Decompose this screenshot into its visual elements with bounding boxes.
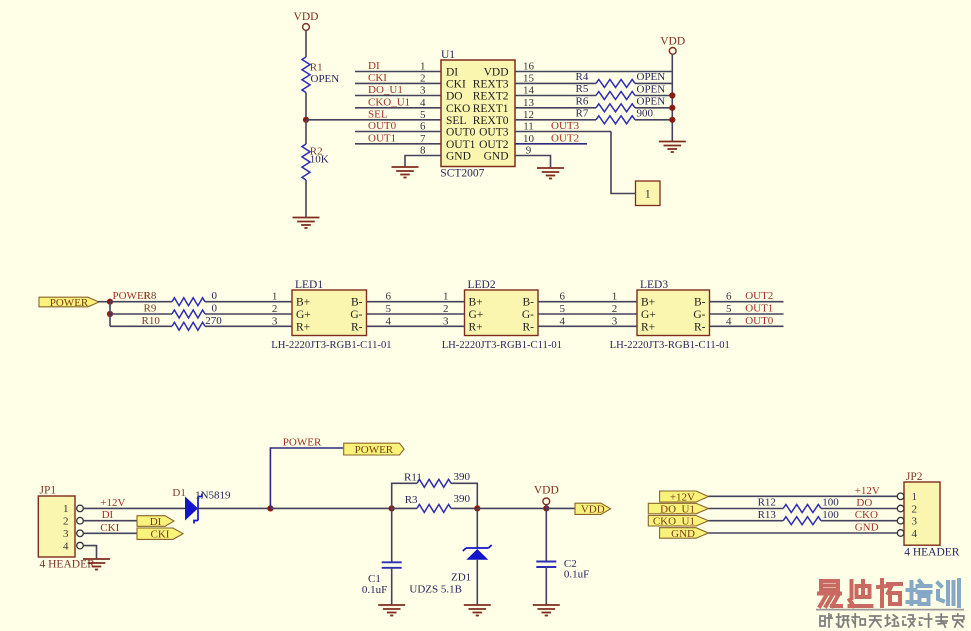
wire JP1 pin3 to CKI port <box>83 532 137 534</box>
svg-text:POWER: POWER <box>355 444 394 456</box>
svg-text:R12: R12 <box>758 497 776 509</box>
connector JP1 body <box>38 496 75 557</box>
svg-text:1: 1 <box>645 189 651 201</box>
svg-text:3: 3 <box>272 315 278 327</box>
svg-text:4 HEADER: 4 HEADER <box>904 547 960 559</box>
svg-text:CKI: CKI <box>368 72 387 84</box>
svg-text:CKI: CKI <box>151 529 170 541</box>
svg-text:DI: DI <box>446 67 458 79</box>
svg-text:B-: B- <box>351 297 363 309</box>
svg-text:+12V: +12V <box>855 485 880 497</box>
svg-text:0: 0 <box>212 290 218 302</box>
svg-text:3: 3 <box>912 516 918 528</box>
wire JP1 pin4 to ground <box>83 546 96 559</box>
svg-text:R7: R7 <box>576 107 589 119</box>
wire U1 pin11 OUT3 <box>515 131 611 133</box>
JP2 pin 4 circle <box>897 530 904 537</box>
wire net SEL to U1 pin 5 <box>306 119 441 121</box>
ground (JP1 pin 4) <box>83 559 110 570</box>
wire node to R3 <box>392 507 417 509</box>
ground (ZD1) <box>464 605 491 616</box>
svg-text:UDZS 5.1B: UDZS 5.1B <box>409 584 462 596</box>
wire R9 to LED1 pin 2 <box>205 313 292 315</box>
wire C1 to ground <box>391 568 393 605</box>
svg-text:2: 2 <box>420 72 426 84</box>
svg-text:D1: D1 <box>172 487 185 499</box>
svg-text:GND: GND <box>446 151 471 163</box>
resistor R9 <box>172 310 205 318</box>
svg-text:16: 16 <box>523 61 535 73</box>
svg-text:+12V: +12V <box>670 491 695 503</box>
svg-text:B-: B- <box>694 297 706 309</box>
svg-text:CKO_U1: CKO_U1 <box>653 516 695 528</box>
svg-text:G+: G+ <box>469 309 484 321</box>
svg-text:LH-2220JT3-RGB1-C11-01: LH-2220JT3-RGB1-C11-01 <box>442 340 562 351</box>
LED component LED2 body <box>465 290 539 336</box>
svg-text:CKI: CKI <box>100 522 119 534</box>
wire to POWER port <box>270 448 343 508</box>
wire POWER vertical bus <box>109 302 111 327</box>
svg-text:4: 4 <box>420 97 426 109</box>
wire LED1 pin 5 to LED2 pin 2 <box>367 313 465 315</box>
svg-text:VDD: VDD <box>484 67 509 79</box>
svg-text:1: 1 <box>912 491 918 503</box>
svg-text:390: 390 <box>454 493 471 505</box>
wire VDD symbol to node <box>545 505 547 509</box>
svg-text:G+: G+ <box>296 309 311 321</box>
ground (below R2) <box>293 218 320 229</box>
wire DO_U1 to R12 <box>708 508 783 510</box>
JP2 pin 3 circle <box>897 517 904 524</box>
svg-text:OPEN: OPEN <box>637 71 666 83</box>
wire node down to C2 <box>545 508 547 561</box>
svg-text:R+: R+ <box>469 321 483 333</box>
port DI <box>137 516 174 528</box>
port POWER (bottom) <box>344 443 404 456</box>
svg-text:POWER: POWER <box>50 297 89 309</box>
svg-text:CKI: CKI <box>446 79 466 91</box>
junction POWER row2 <box>107 311 113 317</box>
wire node to R9 <box>110 313 172 315</box>
svg-text:GND: GND <box>855 522 879 534</box>
wire ZD1 to ground <box>476 560 478 605</box>
svg-text:4: 4 <box>912 528 918 540</box>
resistor R2 <box>302 144 310 180</box>
resistor R13 <box>783 517 821 525</box>
wire LED1 pin 6 to LED2 pin 1 <box>367 301 465 303</box>
ground (C2) <box>533 605 560 616</box>
svg-text:LH-2220JT3-RGB1-C11-01: LH-2220JT3-RGB1-C11-01 <box>271 340 391 351</box>
wire R3 to ZD1 node <box>451 507 477 509</box>
svg-text:REXT3: REXT3 <box>473 79 509 91</box>
connector JP2 body <box>904 482 940 545</box>
wire R8 to LED1 pin 1 <box>205 301 292 303</box>
port POWER (LED rail) <box>39 297 99 309</box>
wire LED2 pin 4 to LED3 pin 3 <box>538 325 637 327</box>
ground (VDD rail) <box>659 142 686 153</box>
svg-text:LED1: LED1 <box>295 279 323 291</box>
svg-text:SEL: SEL <box>368 108 388 120</box>
junction ZD1 <box>474 505 480 511</box>
wire R13 to JP2 pin3 <box>821 520 897 522</box>
svg-text:OUT1: OUT1 <box>446 139 476 151</box>
svg-text:B+: B+ <box>469 297 483 309</box>
svg-text:R9: R9 <box>144 303 157 315</box>
svg-text:GND: GND <box>671 528 695 540</box>
port +12V <box>660 491 709 503</box>
svg-text:VDD: VDD <box>294 11 319 23</box>
resistor R11 <box>417 479 451 487</box>
svg-text:DO_U1: DO_U1 <box>368 84 403 96</box>
svg-text:7: 7 <box>420 133 426 145</box>
op-amp U1 body (SCT2007) <box>441 60 515 167</box>
svg-text:DI: DI <box>150 516 162 528</box>
svg-text:JP1: JP1 <box>40 485 57 497</box>
resistor R12 <box>783 505 821 513</box>
svg-text:OUT1: OUT1 <box>368 132 396 144</box>
sheet connector box 1 <box>636 181 661 206</box>
svg-text:R10: R10 <box>142 315 161 327</box>
wire POWER port to node <box>98 301 110 303</box>
svg-text:G+: G+ <box>641 309 656 321</box>
svg-text:OUT2: OUT2 <box>479 139 509 151</box>
svg-text:R11: R11 <box>404 472 422 484</box>
wire R12 to JP2 pin2 <box>821 508 897 510</box>
resistor R4 <box>596 79 635 87</box>
svg-text:VDD: VDD <box>581 504 605 516</box>
LED component LED3 body <box>637 290 710 336</box>
svg-text:OUT2: OUT2 <box>551 132 579 144</box>
svg-text:1: 1 <box>420 61 426 73</box>
wire JP1 pin2 to DI port <box>83 520 137 522</box>
wire net OUT1 to U1 pin 7 <box>355 143 441 145</box>
wire node to R2 <box>305 120 307 144</box>
wire U1 pin 14 to R5 <box>515 95 596 97</box>
svg-text:2: 2 <box>912 503 918 515</box>
junction R5 rail <box>669 92 675 98</box>
wire node down to ZD1 <box>476 508 478 547</box>
wire LED2 pin 5 to LED3 pin 2 <box>538 313 637 315</box>
wire R4 to VDD rail <box>635 82 672 84</box>
junction R7 rail <box>669 117 675 123</box>
svg-text:2: 2 <box>272 303 278 315</box>
wire R6 to VDD rail <box>635 107 672 109</box>
wire VDD rail vertical <box>671 54 673 141</box>
resistor R3 <box>417 504 451 512</box>
wire +12V to JP2 pin1 <box>708 495 897 497</box>
wire net OUT0 to U1 pin 6 <box>355 131 441 133</box>
capacitor C2 <box>536 562 556 568</box>
svg-text:R5: R5 <box>576 83 589 95</box>
JP2 pin 1 circle <box>897 493 904 500</box>
svg-text:SCT2007: SCT2007 <box>440 168 484 180</box>
junction POWER tap <box>267 505 273 511</box>
svg-text:CKO: CKO <box>855 509 878 521</box>
svg-text:3: 3 <box>420 85 426 97</box>
svg-text:CKO_U1: CKO_U1 <box>368 96 410 108</box>
svg-text:ZD1: ZD1 <box>451 571 471 583</box>
wire node to R8 <box>110 301 172 303</box>
svg-text:900: 900 <box>637 108 654 120</box>
svg-text:REXT1: REXT1 <box>473 103 509 115</box>
svg-text:LED3: LED3 <box>640 279 668 291</box>
ground (U1 pin 9) <box>537 168 564 179</box>
port VDD <box>575 503 611 516</box>
power VDD (top right) <box>660 36 685 55</box>
svg-text:R+: R+ <box>641 321 655 333</box>
svg-text:OUT3: OUT3 <box>479 127 509 139</box>
wire LED2 pin 6 to LED3 pin 1 <box>538 301 637 303</box>
svg-text:OUT0: OUT0 <box>745 315 774 327</box>
resistor R1 <box>302 57 310 93</box>
svg-text:R4: R4 <box>576 71 589 83</box>
svg-text:U1: U1 <box>441 49 455 61</box>
svg-text:OUT3: OUT3 <box>551 120 580 132</box>
port CKI <box>137 528 183 541</box>
svg-text:DI: DI <box>368 60 380 72</box>
port GND <box>660 528 709 540</box>
watermark underline <box>816 609 964 611</box>
JP1 pin 4 circle <box>77 542 84 549</box>
svg-text:SEL: SEL <box>446 115 466 127</box>
svg-text:4 HEADER: 4 HEADER <box>40 559 96 571</box>
wire POWER node to R3 node <box>270 507 391 509</box>
JP2 pin 2 circle <box>897 505 904 512</box>
ground (U1 pin 8) <box>392 167 419 178</box>
LED component LED1 body <box>292 290 367 336</box>
svg-text:270: 270 <box>205 315 222 327</box>
wire net CKI to U1 pin 2 <box>355 82 441 84</box>
svg-text:OUT2: OUT2 <box>745 290 773 302</box>
svg-text:B+: B+ <box>641 297 655 309</box>
wire LED3 pin 5 to net <box>710 313 784 315</box>
svg-text:4: 4 <box>63 540 69 552</box>
wire net DO_U1 to U1 pin 3 <box>355 95 441 97</box>
svg-text:R+: R+ <box>296 321 310 333</box>
wire GND to JP2 pin4 <box>708 532 897 534</box>
svg-text:R-: R- <box>523 321 535 333</box>
svg-text:OPEN: OPEN <box>311 73 340 85</box>
svg-text:VDD: VDD <box>534 484 559 496</box>
resistor R7 <box>596 116 635 124</box>
wire LED3 pin 4 to net <box>710 325 784 327</box>
svg-text:R3: R3 <box>405 494 418 506</box>
svg-text:R-: R- <box>694 321 706 333</box>
svg-text:R-: R- <box>351 321 363 333</box>
wire node down to C1 <box>391 508 393 562</box>
power VDD (top left) <box>294 11 319 30</box>
svg-text:OUT0: OUT0 <box>446 127 476 139</box>
wire C2 to ground <box>545 567 547 605</box>
svg-text:0: 0 <box>212 303 218 315</box>
resistor R10 <box>172 322 205 330</box>
wire U1 pin16 to VDD rail <box>515 71 672 73</box>
svg-text:2: 2 <box>63 516 69 528</box>
JP1 pin 2 circle <box>77 517 84 524</box>
wire U1 pin 15 to R4 <box>515 82 596 84</box>
wire D1 to POWER node <box>198 507 271 509</box>
svg-text:R13: R13 <box>758 509 777 521</box>
junction R6 rail <box>669 105 675 111</box>
svg-text:1: 1 <box>63 503 69 515</box>
wire VDD to R1 <box>305 31 307 58</box>
svg-text:G-: G- <box>522 309 534 321</box>
ground (C1) <box>378 605 405 616</box>
JP1 pin 3 circle <box>77 530 84 537</box>
svg-text:OPEN: OPEN <box>637 96 666 108</box>
junction R1/R2/SEL <box>303 117 309 123</box>
svg-text:GND: GND <box>484 151 509 163</box>
svg-text:100: 100 <box>822 497 839 509</box>
resistor R8 <box>172 298 205 306</box>
svg-text:+12V: +12V <box>100 497 125 509</box>
svg-text:G-: G- <box>693 309 705 321</box>
wire R11 down to node <box>451 483 477 508</box>
zener diode ZD1 (UDZS 5.1B) <box>463 545 492 560</box>
power VDD (bottom) <box>534 484 559 504</box>
junction VDD tap <box>543 505 549 511</box>
port CKO_U1 <box>648 516 708 528</box>
svg-text:R1: R1 <box>310 62 323 74</box>
wire node to R10 <box>110 325 172 327</box>
wire JP1 pin1 to D1 <box>83 507 185 509</box>
junction POWER row1 <box>107 299 113 305</box>
svg-text:5: 5 <box>420 109 426 121</box>
diode D1 (1N5819) <box>185 494 202 524</box>
svg-text:LED2: LED2 <box>468 279 496 291</box>
svg-text:REXT0: REXT0 <box>473 115 509 127</box>
svg-text:CKO: CKO <box>446 103 470 115</box>
svg-text:B+: B+ <box>296 297 310 309</box>
watermark subtitle (RF and antenna design experts) <box>820 614 964 627</box>
svg-text:10K: 10K <box>310 154 329 166</box>
svg-text:DO: DO <box>856 497 872 509</box>
wire R7 to VDD rail <box>635 119 672 121</box>
svg-text:0.1uF: 0.1uF <box>362 584 387 596</box>
junction R3/R11/C1 <box>389 505 395 511</box>
wire U1 pin 13 to R6 <box>515 107 596 109</box>
port DO_U1 <box>648 503 708 515</box>
svg-text:R8: R8 <box>144 290 157 302</box>
svg-text:0.1uF: 0.1uF <box>564 569 589 581</box>
svg-text:R6: R6 <box>576 95 589 107</box>
capacitor C1 <box>382 562 402 568</box>
svg-text:G-: G- <box>350 309 362 321</box>
wire net CKO_U1 to U1 pin 4 <box>355 107 441 109</box>
svg-text:OPEN: OPEN <box>637 83 666 95</box>
wire ZD1 node to VDD node <box>477 507 546 509</box>
wire LED1 pin 4 to LED2 pin 3 <box>367 325 465 327</box>
svg-text:DI: DI <box>102 509 114 521</box>
wire R2 to ground <box>305 180 307 218</box>
svg-text:OUT0: OUT0 <box>368 120 397 132</box>
svg-text:3: 3 <box>63 528 69 540</box>
svg-text:B-: B- <box>523 297 535 309</box>
svg-text:1: 1 <box>272 291 278 303</box>
wire CKO_U1 to R13 <box>708 520 783 522</box>
svg-text:100: 100 <box>822 509 839 521</box>
wire U1 pin10 OUT2 <box>515 143 587 145</box>
svg-text:REXT2: REXT2 <box>473 91 509 103</box>
wire U1 pin 12 to R7 <box>515 119 596 121</box>
svg-text:OUT1: OUT1 <box>745 303 773 315</box>
JP1 pin 1 circle <box>77 505 84 512</box>
svg-text:1N5819: 1N5819 <box>195 490 231 502</box>
wire R1 to node <box>305 93 307 120</box>
svg-text:9: 9 <box>526 145 532 157</box>
wire net DI to U1 pin 1 <box>355 71 441 73</box>
svg-text:DO_U1: DO_U1 <box>660 503 695 515</box>
wire up to R11 <box>392 483 417 508</box>
wire LED3 pin 6 to net <box>710 301 784 303</box>
wire U1 pin9 to ground <box>515 156 551 169</box>
svg-text:LH-2220JT3-RGB1-C11-01: LH-2220JT3-RGB1-C11-01 <box>610 340 730 351</box>
svg-text:POWER: POWER <box>283 437 322 449</box>
wire U1 pin8 to ground <box>405 156 441 168</box>
watermark logo YiDiTuo PeiXun <box>819 580 959 606</box>
svg-text:390: 390 <box>454 471 471 483</box>
resistor R5 <box>596 92 635 100</box>
svg-text:JP2: JP2 <box>906 471 923 483</box>
wire R10 to LED1 pin 3 <box>205 325 292 327</box>
svg-text:DO: DO <box>446 91 463 103</box>
svg-text:6: 6 <box>420 121 426 133</box>
resistor R6 <box>596 104 635 112</box>
wire R5 to VDD rail <box>635 95 672 97</box>
wire VDD node to VDD port <box>546 507 575 509</box>
wire OUT3 to sheet symbol <box>611 132 636 194</box>
svg-text:VDD: VDD <box>660 36 685 48</box>
